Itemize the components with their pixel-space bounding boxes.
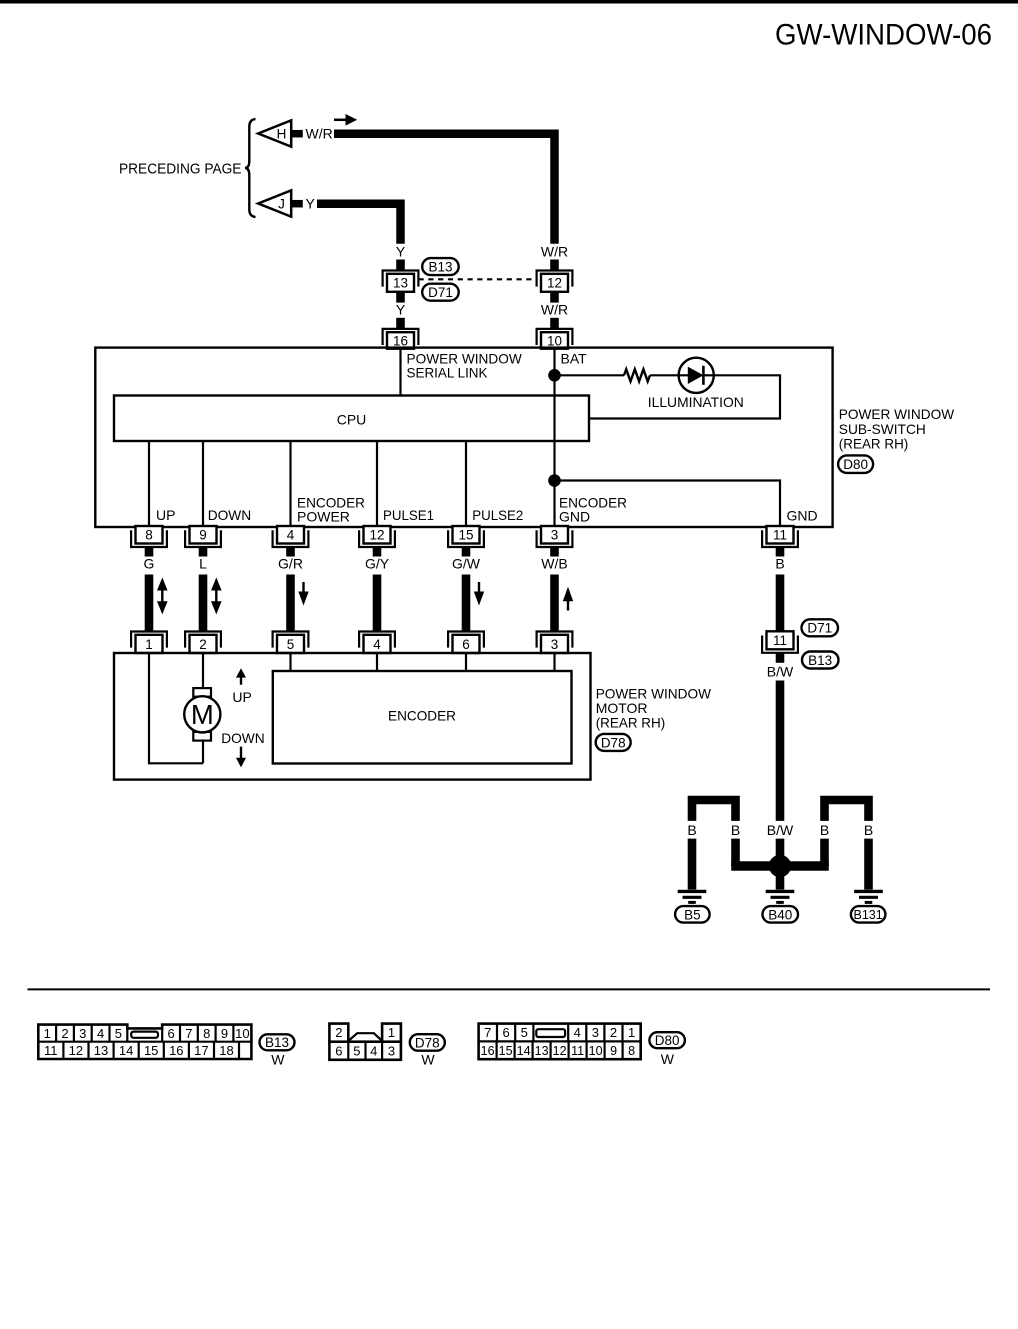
svg-text:2: 2 [199, 637, 207, 652]
wire (switch to motor) at x=377 [373, 575, 382, 632]
svg-text:11: 11 [571, 1044, 584, 1058]
svg-text:14: 14 [119, 1043, 133, 1058]
svg-text:B40: B40 [768, 907, 792, 922]
svg-text:1: 1 [628, 1025, 635, 1040]
oval B13 (at connector 11) [802, 652, 839, 669]
power window sub-switch box U-D80 [95, 348, 832, 527]
svg-text:1: 1 [388, 1025, 395, 1040]
svg-text:W/R: W/R [541, 302, 568, 318]
svg-text:18: 18 [219, 1043, 233, 1058]
svg-text:M: M [191, 699, 214, 730]
wire B right leg to B131 ground [864, 839, 873, 890]
svg-text:Y: Y [396, 243, 406, 259]
svg-text:15: 15 [458, 528, 473, 543]
pin 6 (motor top) [448, 632, 484, 648]
svg-text:11: 11 [773, 528, 787, 543]
svg-text:12: 12 [553, 1044, 567, 1058]
oval B131 [851, 906, 886, 923]
wire CPU to pin 15 [465, 441, 467, 526]
down arrow (motor) [240, 747, 242, 759]
svg-text:POWER WINDOW: POWER WINDOW [596, 685, 712, 701]
brace (preceding page bracket) [245, 119, 256, 217]
svg-text:ENCODER: ENCODER [388, 707, 456, 723]
oval D78 (face) [410, 1034, 445, 1051]
wire (switch to motor) at x=203 [199, 575, 208, 632]
CPU box [114, 396, 589, 442]
wire pin5 to encoder [289, 654, 291, 671]
wire stub above connector 13 [396, 260, 405, 271]
svg-text:H: H [277, 126, 287, 141]
svg-text:SERIAL LINK: SERIAL LINK [407, 365, 489, 381]
pin 3 (motor top) [537, 632, 573, 648]
oval D71 (at connector 11) [802, 619, 839, 636]
pin 1 (motor top) [131, 632, 167, 648]
oval D71 (at connector 13) [422, 284, 459, 301]
power window motor box D78 [114, 653, 591, 780]
svg-text:DOWN: DOWN [221, 730, 265, 746]
up/down arrow (G wire) [157, 578, 168, 591]
wire LED return to CPU [589, 375, 780, 418]
svg-text:Y: Y [306, 196, 316, 212]
svg-text:PRECEDING PAGE: PRECEDING PAGE [119, 161, 241, 178]
svg-text:B/W: B/W [767, 664, 794, 680]
svg-text:11: 11 [773, 633, 787, 648]
svg-text:ILLUMINATION: ILLUMINATION [648, 394, 744, 410]
svg-text:3: 3 [388, 1043, 395, 1058]
svg-text:1: 1 [145, 637, 153, 652]
svg-text:B/W: B/W [767, 822, 794, 838]
svg-text:D78: D78 [601, 735, 626, 750]
svg-text:B13: B13 [265, 1035, 289, 1050]
svg-text:W/B: W/B [541, 556, 567, 572]
connector pin 12 [537, 271, 573, 287]
svg-text:6: 6 [335, 1043, 342, 1058]
svg-text:8: 8 [145, 528, 153, 543]
svg-text:16: 16 [481, 1044, 495, 1058]
svg-text:16: 16 [169, 1043, 183, 1058]
svg-text:CPU: CPU [337, 412, 367, 428]
svg-text:GW-WINDOW-06: GW-WINDOW-06 [775, 19, 992, 52]
down arrow (G/R wire) [302, 582, 304, 594]
wire resistor to LED [650, 374, 680, 376]
svg-text:PULSE1: PULSE1 [383, 507, 434, 523]
svg-text:MOTOR: MOTOR [596, 700, 648, 716]
connector pin 16 [383, 329, 419, 345]
svg-text:B: B [731, 822, 740, 838]
pin 12 (sub-switch bottom) [359, 530, 395, 547]
svg-text:UP: UP [232, 689, 251, 705]
svg-text:4: 4 [370, 1043, 377, 1058]
junction ground dot [769, 855, 791, 877]
wire stub pin 3 [550, 547, 559, 556]
wire (switch to motor) at x=149 [145, 575, 154, 632]
wire stub pin 11 [776, 547, 785, 556]
svg-text:W/R: W/R [541, 243, 568, 259]
oval D80 (face) [649, 1032, 685, 1048]
svg-text:B13: B13 [808, 653, 832, 668]
resistor (illumination) [624, 369, 650, 381]
svg-text:POWER: POWER [297, 508, 350, 524]
oval B13 (face) [260, 1034, 295, 1050]
ground symbol B40 [766, 890, 795, 893]
wire stub above connector 10 [550, 318, 559, 329]
pin 11 (sub-switch bottom) [762, 530, 798, 547]
svg-text:GND: GND [787, 508, 818, 524]
svg-text:W: W [421, 1052, 435, 1068]
pin 3 (sub-switch bottom) [537, 530, 573, 547]
svg-text:5: 5 [353, 1043, 360, 1058]
svg-text:B: B [864, 822, 873, 838]
svg-text:D80: D80 [843, 457, 868, 472]
connector pin 11 (D71/B13) [762, 636, 798, 653]
svg-text:16: 16 [393, 333, 408, 348]
wire stub below connector 12 [550, 292, 559, 303]
dashed mating line 13-12 [419, 278, 537, 280]
svg-text:4: 4 [574, 1025, 581, 1040]
pin 8 (sub-switch bottom) [131, 530, 167, 547]
junction encoder-gnd dot [548, 474, 561, 487]
svg-text:G/R: G/R [278, 556, 303, 572]
wire motor bottom [202, 740, 204, 763]
svg-text:4: 4 [97, 1026, 104, 1041]
svg-text:5: 5 [115, 1026, 122, 1041]
wire W/R from H to connector 12 [334, 134, 555, 244]
pin 4 (motor top) [359, 632, 395, 648]
svg-text:B13: B13 [428, 259, 452, 274]
wire CPU to pin 9 [202, 441, 204, 526]
svg-text:B131: B131 [853, 908, 882, 922]
svg-text:PULSE2: PULSE2 [472, 507, 523, 523]
page top border bar [0, 0, 1018, 4]
wire 10/BAT vertical to pin 3 [553, 349, 555, 526]
svg-text:(REAR RH): (REAR RH) [596, 715, 666, 731]
connector face B13 [38, 1025, 251, 1059]
svg-text:BAT: BAT [561, 350, 588, 366]
svg-text:B5: B5 [684, 907, 701, 922]
off-page connector J [258, 190, 291, 216]
wire (switch to motor) at x=290.5 [286, 575, 295, 632]
svg-text:9: 9 [610, 1044, 617, 1058]
ground bus left staple [692, 800, 736, 821]
svg-text:B: B [775, 556, 784, 572]
svg-text:3: 3 [79, 1026, 86, 1041]
svg-text:11: 11 [44, 1043, 58, 1058]
svg-text:G/Y: G/Y [365, 556, 390, 572]
wire stub below connector 13 [396, 292, 405, 303]
svg-text:6: 6 [462, 637, 470, 652]
svg-text:G/W: G/W [452, 556, 481, 572]
svg-text:2: 2 [335, 1025, 342, 1040]
svg-text:W: W [661, 1051, 675, 1067]
wire BAT dot to resistor [555, 374, 625, 376]
wire stub pin 15 [462, 547, 471, 556]
wire stub pin 9 [199, 547, 208, 556]
svg-text:W/R: W/R [306, 126, 333, 142]
svg-text:UP: UP [156, 507, 175, 523]
pin 4 (sub-switch bottom) [273, 530, 309, 547]
down arrow (G/W wire) [478, 582, 480, 594]
pin 2 (motor top) [185, 632, 221, 648]
wire stub H [291, 130, 303, 138]
motor M (window motor) [193, 688, 211, 697]
svg-text:3: 3 [592, 1025, 599, 1040]
svg-text:(REAR RH): (REAR RH) [839, 436, 909, 452]
svg-text:5: 5 [521, 1025, 528, 1040]
oval D78 [596, 734, 631, 751]
wire CPU to pin 8 [148, 441, 150, 526]
svg-text:W: W [271, 1052, 285, 1068]
wire stub pin 4 [286, 547, 295, 556]
wire Y from J to connector 13 [317, 204, 401, 244]
wire encoder-gnd to pin 11 [555, 481, 781, 527]
svg-text:D78: D78 [415, 1035, 440, 1050]
wire pin4 to encoder [376, 654, 378, 671]
svg-text:6: 6 [167, 1026, 174, 1041]
svg-text:B: B [687, 822, 696, 838]
up arrow (W/B wire) [563, 587, 573, 602]
wire B inner-right leg to bus [820, 839, 829, 866]
svg-text:POWER WINDOW: POWER WINDOW [839, 406, 955, 422]
up arrow (motor) [236, 668, 246, 677]
wire B inner-left leg to bus [731, 839, 740, 866]
svg-text:3: 3 [551, 528, 559, 543]
svg-text:10: 10 [547, 333, 562, 348]
svg-text:8: 8 [203, 1026, 210, 1041]
svg-text:G: G [144, 556, 155, 572]
svg-text:1: 1 [44, 1026, 51, 1041]
svg-text:12: 12 [69, 1043, 83, 1058]
wire stub below connector 11 [776, 653, 785, 663]
svg-text:6: 6 [502, 1025, 509, 1040]
wire (switch to motor) at x=554.5 [550, 575, 559, 632]
svg-text:7: 7 [185, 1026, 192, 1041]
oval B5 [675, 906, 710, 923]
svg-text:4: 4 [373, 637, 381, 652]
wire B/W long down [776, 681, 785, 821]
svg-text:15: 15 [499, 1044, 513, 1058]
LED illumination (diode) [679, 358, 714, 393]
svg-text:9: 9 [199, 528, 207, 543]
separator line [28, 988, 991, 990]
svg-text:D80: D80 [655, 1033, 680, 1048]
wire stub pin 8 [145, 547, 154, 556]
pin 15 (sub-switch bottom) [448, 530, 484, 547]
connector pin 13 [383, 271, 419, 287]
oval B40 [763, 906, 799, 923]
svg-text:9: 9 [221, 1026, 228, 1041]
pin 9 (sub-switch bottom) [185, 530, 221, 547]
svg-text:2: 2 [61, 1026, 68, 1041]
wire stub J [291, 200, 303, 208]
svg-text:7: 7 [484, 1025, 491, 1040]
wire (switch to motor) at x=466 [462, 575, 471, 632]
svg-text:D71: D71 [807, 621, 832, 636]
svg-text:SUB-SWITCH: SUB-SWITCH [839, 421, 926, 437]
junction BAT dot [548, 369, 561, 382]
svg-text:13: 13 [535, 1044, 549, 1058]
svg-text:Y: Y [396, 302, 406, 318]
svg-text:2: 2 [610, 1025, 617, 1040]
wire B left leg to B5 ground [688, 839, 697, 890]
svg-text:DOWN: DOWN [208, 507, 252, 523]
wire pin3 to encoder [553, 654, 555, 671]
svg-text:12: 12 [547, 276, 562, 291]
ground bus right staple [825, 800, 869, 821]
svg-text:13: 13 [393, 276, 408, 291]
connector face D80 [479, 1024, 641, 1060]
svg-text:15: 15 [144, 1043, 158, 1058]
connector pin 10 [537, 329, 573, 345]
wire CPU to pin 12 [376, 441, 378, 526]
svg-text:17: 17 [194, 1043, 208, 1058]
svg-text:10: 10 [235, 1026, 249, 1041]
encoder box [273, 671, 572, 764]
svg-text:D71: D71 [428, 285, 453, 300]
svg-text:5: 5 [287, 637, 295, 652]
ground symbol B131 [854, 890, 883, 893]
wire stub above connector 16 [396, 318, 405, 329]
wire B pin11 to connector 11 [776, 575, 785, 634]
wire 16 to CPU [399, 349, 401, 396]
wire pin2 to motor top [202, 654, 204, 689]
pin 5 (motor top) [273, 632, 309, 648]
connector face D78 [329, 1024, 401, 1060]
svg-text:3: 3 [551, 637, 559, 652]
wire B/W center to ground [776, 839, 785, 890]
svg-text:8: 8 [628, 1044, 635, 1058]
wire stub above connector 12 [550, 260, 559, 271]
oval D80 [838, 455, 873, 473]
svg-text:B: B [820, 822, 829, 838]
oval B13 (at connector 13) [422, 258, 459, 275]
off-page connector H [258, 120, 291, 146]
svg-text:L: L [199, 556, 207, 572]
svg-text:12: 12 [369, 528, 384, 543]
ground bus horizontal [731, 861, 829, 871]
svg-text:4: 4 [287, 528, 295, 543]
svg-text:13: 13 [94, 1043, 108, 1058]
wire CPU to pin 4 [289, 441, 291, 526]
direction arrow (to next) [334, 119, 346, 122]
wire pin6 to encoder [465, 654, 467, 671]
ground symbol B5 [678, 890, 707, 893]
wire stub pin 12 [373, 547, 382, 556]
svg-text:10: 10 [589, 1044, 603, 1058]
svg-text:J: J [278, 196, 285, 211]
svg-text:14: 14 [517, 1044, 531, 1058]
wire pin1 to motor bottom [149, 654, 203, 764]
up/down arrow (L wire) [211, 578, 222, 591]
svg-text:GND: GND [559, 508, 590, 524]
